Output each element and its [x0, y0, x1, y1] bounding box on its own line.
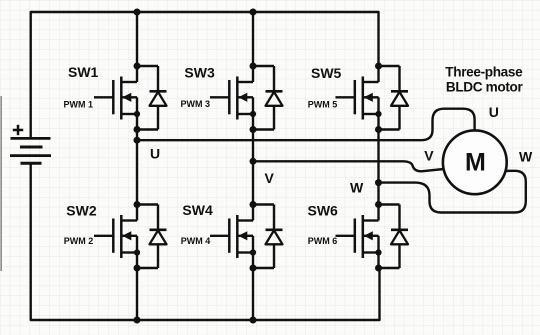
junction: top rail / leg 1 [134, 9, 141, 16]
svg-text:V: V [424, 148, 434, 164]
label SW2 [66, 203, 97, 219]
pin label PWM 3 [180, 99, 210, 109]
svg-text:SW3: SW3 [184, 65, 215, 81]
pin label PWM 5 [308, 100, 338, 110]
transistor SW1 (N-channel MOSFET) [94, 66, 140, 130]
wire: leg 2 mid vertical (SW3 source to SW4 drain) [252, 130, 254, 205]
diode D6 (freewheeling, across SW6) [379, 205, 409, 269]
net label W (leg 3) [350, 180, 364, 196]
pin label PWM 4 [181, 236, 211, 246]
pin label PWM 6 [308, 236, 338, 246]
svg-text:PWM 3: PWM 3 [180, 99, 210, 109]
svg-text:W: W [350, 180, 364, 196]
junction: SW1 source / D1 anode node [134, 126, 141, 133]
svg-text:U: U [489, 104, 499, 120]
wire: leg 2 bottom vertical (SW4 source to bottom rail) [252, 268, 254, 320]
battery + polarity mark [13, 125, 23, 135]
junction: SW5 source / D5 anode node [375, 126, 382, 133]
motor terminal label V [424, 148, 434, 164]
battery B1 (DC supply) [10, 138, 51, 163]
junction: SW4 drain / D4 cathode node [250, 201, 257, 208]
svg-text:SW6: SW6 [308, 203, 339, 219]
label SW4 [182, 202, 213, 218]
junction: bottom rail / leg 1 [134, 317, 141, 324]
wire: leg 1 vertical (top rail to SW1) [136, 12, 138, 66]
label SW3 [184, 65, 215, 81]
label SW5 [311, 65, 342, 81]
svg-text:U: U [150, 146, 160, 162]
junction: phase W tap on leg 3 [375, 179, 382, 186]
transistor SW2 (N-channel MOSFET) [94, 205, 140, 269]
wire: phase V from leg 2 midpoint to motor [253, 161, 444, 171]
svg-text:SW2: SW2 [66, 203, 97, 219]
svg-text:PWM 5: PWM 5 [308, 100, 338, 110]
junction: SW2 drain / D2 cathode node [134, 201, 141, 208]
net label U (leg 1) [150, 146, 160, 162]
net label V (leg 2) [265, 170, 275, 186]
svg-text:M: M [465, 149, 486, 177]
junction: SW3 source / D3 anode node [250, 126, 257, 133]
pin label PWM 2 [64, 236, 94, 246]
junction: SW3 drain / D3 cathode node [250, 63, 257, 70]
motor terminal label W [519, 148, 533, 164]
motor letter M [465, 149, 486, 177]
wire: phase W from leg 3 midpoint to motor [379, 171, 526, 213]
svg-text:PWM 6: PWM 6 [308, 236, 338, 246]
diode D3 (freewheeling, across SW3) [253, 66, 283, 130]
junction: phase U tap on leg 1 [134, 137, 141, 144]
wire: negative bottom return rail [31, 165, 380, 321]
svg-text:PWM 2: PWM 2 [64, 236, 94, 246]
svg-text:SW4: SW4 [182, 202, 213, 218]
transistor SW5 (N-channel MOSFET) [336, 66, 382, 130]
junction: SW4 source / D4 anode node [250, 265, 257, 272]
svg-text:Three-phase: Three-phase [445, 65, 523, 80]
junction: SW1 drain / D1 cathode node [134, 63, 141, 70]
wire: positive top supply rail [31, 12, 379, 137]
svg-text:SW1: SW1 [68, 64, 99, 80]
motor M1 circle (BLDC) [443, 130, 507, 194]
svg-text:PWM 1: PWM 1 [63, 99, 93, 109]
wire: leg 1 mid vertical (SW1 source to SW2 drain) [136, 130, 138, 205]
diode D4 (freewheeling, across SW4) [253, 205, 283, 269]
junction: SW6 drain / D6 cathode node [375, 201, 382, 208]
junction: phase V tap on leg 2 [250, 158, 257, 165]
diode D1 (freewheeling, across SW1) [137, 66, 167, 130]
label SW1 [68, 64, 99, 80]
svg-text:SW5: SW5 [311, 65, 342, 81]
svg-text:BLDC motor: BLDC motor [446, 80, 524, 95]
transistor SW4 (N-channel MOSFET) [210, 205, 256, 269]
junction: top rail / leg 2 [250, 9, 257, 16]
junction: SW6 source / D6 anode node [375, 265, 382, 272]
wire: leg 1 bottom vertical (SW2 source to bottom rail) [136, 268, 138, 320]
caption: Three-phase BLDC motor [445, 65, 523, 95]
svg-text:PWM 4: PWM 4 [181, 236, 211, 246]
transistor SW3 (N-channel MOSFET) [210, 66, 256, 130]
wire: leg 2 vertical (top rail to SW3) [252, 12, 254, 66]
label SW6 [308, 203, 339, 219]
junction: SW5 drain / D5 cathode node [375, 63, 382, 70]
diode D2 (freewheeling, across SW2) [137, 205, 167, 269]
pin label PWM 1 [63, 99, 93, 109]
transistor SW6 (N-channel MOSFET) [336, 205, 382, 269]
junction: bottom rail / leg 2 [250, 317, 257, 324]
diode D5 (freewheeling, across SW5) [379, 66, 409, 130]
junction: SW2 source / D2 anode node [134, 265, 141, 272]
wire: leg 3 mid vertical (SW5 source to SW6 drain) [377, 130, 379, 205]
wire: phase U from leg 1 midpoint to motor [137, 109, 475, 141]
motor terminal label U [489, 104, 499, 120]
svg-text:V: V [265, 170, 275, 186]
svg-text:W: W [519, 148, 533, 164]
